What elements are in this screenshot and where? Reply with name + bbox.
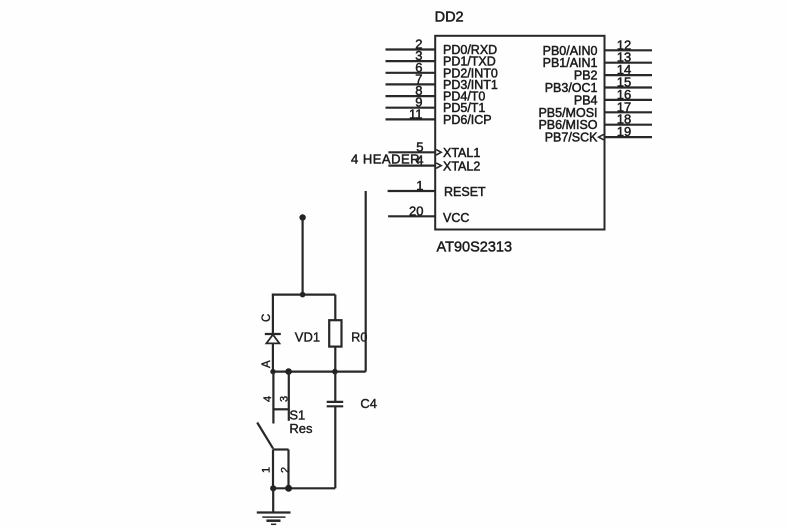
wire pin 14 PB2 <box>605 74 653 76</box>
svg-text:R0: R0 <box>351 330 367 344</box>
node bottom dot right <box>285 485 292 492</box>
node A dot left <box>270 369 275 374</box>
svg-text:PD6/ICP: PD6/ICP <box>443 113 492 127</box>
wire pin 18 PB6/MISO <box>605 124 653 126</box>
wire node A rail <box>271 371 366 373</box>
wire bottom rail <box>273 487 335 489</box>
wire pin 6 PD2/INT0 <box>386 72 436 74</box>
ground bar 4 <box>271 523 276 525</box>
wire pin 4 XTAL2 <box>388 165 435 167</box>
svg-text:1: 1 <box>261 467 273 473</box>
svg-text:20: 20 <box>409 203 423 218</box>
svg-text:2: 2 <box>280 467 292 473</box>
diode VD1 cathode bar <box>265 333 281 335</box>
svg-text:DD2: DD2 <box>435 9 464 25</box>
svg-text:4: 4 <box>262 396 274 402</box>
wire pin 1 RESET <box>388 190 436 192</box>
wire ground stem <box>272 488 274 512</box>
wire VD1 anode to node A <box>272 343 274 371</box>
wire RESET vertical <box>365 191 367 372</box>
wire R0 bottom to node A <box>334 347 336 372</box>
switch S1 pin 4 lead <box>272 372 274 424</box>
wire pin 12 PB0/AIN0 <box>605 49 653 51</box>
wire pin 8 PD4/T0 <box>386 95 436 97</box>
svg-text:RESET: RESET <box>444 185 486 199</box>
switch S1 lower crossbar <box>273 448 289 450</box>
svg-text:XTAL1: XTAL1 <box>443 146 480 160</box>
wire VCC terminal to top rail <box>302 218 304 295</box>
wire VD1 cathode to rail <box>272 294 274 334</box>
wire pin 17 PB5/MOSI <box>605 111 653 113</box>
wire R0 top <box>334 295 336 321</box>
wire pin 5 XTAL1 <box>388 151 435 153</box>
diode VD1 triangle <box>266 335 279 344</box>
svg-text:C4: C4 <box>360 396 377 411</box>
switch S1 upper crossbar <box>273 408 288 410</box>
switch S1 pin 3 lead <box>288 372 290 421</box>
svg-text:19: 19 <box>617 124 631 139</box>
node junction top rail <box>300 292 306 298</box>
svg-text:4 HEADER: 4 HEADER <box>351 151 420 166</box>
svg-text:Res: Res <box>289 421 313 436</box>
node junction R0 C4 <box>332 369 338 375</box>
wire pin 19 PB7/SCK <box>605 136 653 138</box>
wire pin 13 PB1/AIN1 <box>605 62 653 64</box>
pin arrow XTAL2 <box>436 163 441 168</box>
wire pin 9 PD5/T1 <box>386 107 436 109</box>
svg-text:PB7/SCK: PB7/SCK <box>545 131 598 145</box>
ground bar 3 <box>266 519 280 522</box>
pin arrow PB7/SCK <box>599 134 604 139</box>
capacitor C4 top wire <box>334 372 336 402</box>
svg-text:A: A <box>261 360 273 368</box>
switch S1 pin 1 lead <box>272 450 274 489</box>
node A dot middle <box>285 368 292 375</box>
op-amp U1 DD2 IC body <box>435 36 604 230</box>
svg-text:VD1: VD1 <box>295 329 320 344</box>
wire pin 7 PD3/INT1 <box>386 83 436 85</box>
node bottom dot left <box>270 485 276 491</box>
svg-text:11: 11 <box>409 106 423 121</box>
switch S1 pin 2 lead <box>287 450 289 489</box>
wire pin 2 PD0/RXD <box>386 48 436 50</box>
wire pin 3 PD1/TXD <box>386 60 436 62</box>
pin arrow XTAL1 <box>436 150 441 155</box>
svg-text:3: 3 <box>279 396 291 402</box>
resistor R0 body <box>329 320 341 346</box>
node VCC terminal dot <box>299 214 305 220</box>
svg-text:VCC: VCC <box>443 211 469 225</box>
svg-text:1: 1 <box>416 178 423 193</box>
svg-text:C: C <box>261 314 273 322</box>
ground bar 2 <box>262 516 285 518</box>
wire pin 16 PB4 <box>605 99 653 101</box>
capacitor C4 bottom plate <box>327 405 344 407</box>
wire pin 20 VCC <box>388 215 435 217</box>
svg-text:XTAL2: XTAL2 <box>443 159 480 173</box>
wire pin 11 PD6/ICP <box>386 118 436 120</box>
capacitor C4 top plate <box>327 401 344 403</box>
switch S1 lever <box>257 423 273 449</box>
wire top rail <box>272 294 335 296</box>
capacitor C4 bottom wire <box>334 406 336 488</box>
ground bar 1 <box>257 511 291 513</box>
svg-text:AT90S2313: AT90S2313 <box>437 240 513 256</box>
wire pin 15 PB3/OC1 <box>605 86 653 88</box>
